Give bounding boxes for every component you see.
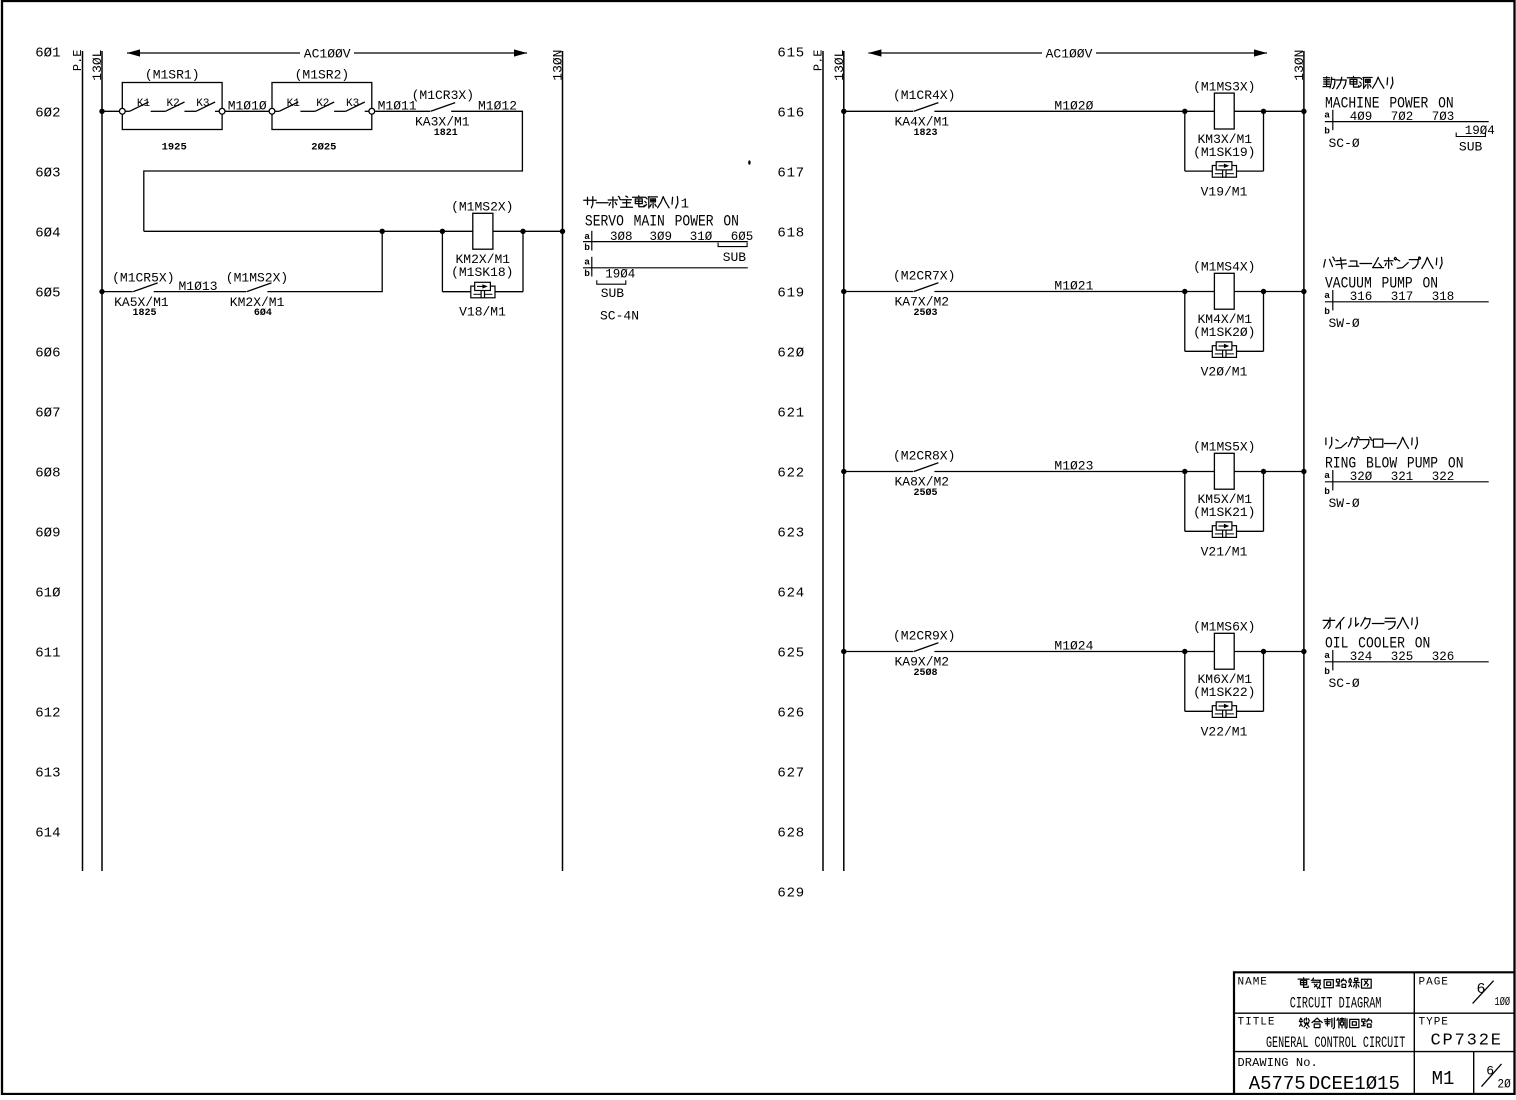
coil KM2X/M1 (M1MS2X): [451, 199, 513, 280]
svg-text:625: 625: [777, 645, 805, 661]
svg-text:19Ø4: 19Ø4: [605, 267, 635, 281]
svg-text:(M1MS5X): (M1MS5X): [1193, 440, 1255, 455]
svg-text:615: 615: [777, 45, 805, 61]
svg-text:M1Ø21: M1Ø21: [1054, 279, 1093, 294]
svg-text:SC-4N: SC-4N: [600, 308, 639, 323]
svg-text:M1Ø23: M1Ø23: [1054, 459, 1093, 474]
svg-text:K1: K1: [137, 98, 151, 110]
svg-text:b: b: [584, 242, 590, 253]
svg-text:6Ø6: 6Ø6: [35, 345, 60, 361]
svg-text:V21/M1: V21/M1: [1201, 545, 1248, 560]
title block DRAWING cell: [1238, 1056, 1400, 1095]
node on 130L rail rung M1Ø2Ø: [841, 109, 846, 114]
node junction suppressor right: [1261, 289, 1266, 294]
wire suppressor branch: [1185, 652, 1264, 712]
coil KM3X/M1 (M1MS3X): [1193, 79, 1255, 160]
svg-text:616: 616: [777, 105, 805, 121]
relay thermostat box (M1SR1) with contacts K1 K2 K3: [119, 68, 225, 154]
AC100V span arrow right: [868, 46, 1267, 61]
contact KA9X/M2 (M2CR9X): [893, 628, 955, 679]
svg-text:(M1SR1): (M1SR1): [145, 68, 200, 83]
contact KM2X/M1 aux (M1MS2X): [226, 270, 288, 319]
svg-text:626: 626: [777, 705, 805, 721]
svg-text:13ØL: 13ØL: [832, 50, 847, 81]
svg-text:611: 611: [35, 645, 60, 661]
svg-text:1925: 1925: [162, 142, 187, 154]
svg-text:a: a: [1324, 110, 1330, 121]
svg-text:(M1MS6X): (M1MS6X): [1193, 620, 1255, 635]
rail P.E left: [71, 50, 85, 872]
wire 605 to up-branch: [267, 231, 382, 291]
node junction V18 left: [440, 229, 445, 234]
svg-text:(M1SK18): (M1SK18): [451, 265, 513, 280]
AC100V span arrow left: [127, 46, 527, 61]
title block frame: [1234, 971, 1514, 1094]
suppressor V22/M1 body: [1201, 702, 1248, 740]
contact KA8X/M2 (M2CR8X): [893, 448, 955, 499]
rail P.E right: [812, 50, 826, 872]
svg-text:613: 613: [35, 765, 60, 781]
node junction suppressor left: [1182, 469, 1187, 474]
wire rail to M1SR1 box: [102, 110, 122, 112]
contact KA5X/M1 (M1CR5X): [112, 270, 174, 319]
svg-text:PAGE: PAGE: [1419, 977, 1449, 989]
svg-text:SC-Ø: SC-Ø: [1329, 136, 1360, 151]
svg-text:SC-Ø: SC-Ø: [1329, 676, 1360, 691]
relay thermostat box (M1SR2) with contacts K1 K2 K3: [269, 68, 375, 154]
svg-text:618: 618: [777, 225, 805, 241]
node junction suppressor right: [1261, 649, 1266, 654]
svg-text:6Ø5: 6Ø5: [35, 285, 60, 301]
svg-text:K3: K3: [346, 98, 359, 110]
node junction suppressor right: [1261, 109, 1266, 114]
svg-text:AC1ØØV: AC1ØØV: [304, 46, 351, 61]
node on 130N rail: [1301, 469, 1306, 474]
node junction suppressor right: [1261, 469, 1266, 474]
wire rung M1Ø2Ø left lead: [844, 110, 914, 112]
title block TITLE cell: [1238, 1017, 1406, 1052]
svg-text:25Ø8: 25Ø8: [913, 667, 937, 679]
node on 130L rail rung M1Ø21: [841, 289, 846, 294]
wire suppressor branch: [1185, 472, 1264, 532]
rail 130N right: [1292, 50, 1307, 872]
svg-text:1823: 1823: [913, 128, 937, 139]
suppressor V19/M1 body: [1201, 162, 1248, 200]
title block NAME cell: [1238, 977, 1382, 1013]
svg-text:6Ø1: 6Ø1: [35, 45, 60, 61]
svg-text:61Ø: 61Ø: [35, 585, 60, 601]
svg-text:627: 627: [777, 765, 805, 781]
svg-text:M1Ø24: M1Ø24: [1054, 639, 1093, 654]
svg-text:SERVO MAIN POWER ON: SERVO MAIN POWER ON: [585, 214, 739, 231]
wire rung to coil: [934, 110, 1304, 112]
svg-text:(M1CR4X): (M1CR4X): [893, 88, 955, 103]
contact KA4X/M1 (M1CR4X): [893, 88, 955, 139]
svg-text:1: 1: [681, 196, 689, 212]
svg-text:V22/M1: V22/M1: [1201, 725, 1248, 740]
svg-text:(M1CR5X): (M1CR5X): [112, 270, 174, 285]
svg-text:AC1ØØV: AC1ØØV: [1046, 46, 1093, 61]
contact KA7X/M2 (M2CR7X): [893, 268, 955, 319]
svg-text:TITLE: TITLE: [1238, 1017, 1276, 1029]
svg-text:SUB: SUB: [1459, 140, 1483, 155]
svg-text:622: 622: [777, 465, 805, 481]
svg-text:2Ø25: 2Ø25: [311, 142, 336, 154]
svg-text:A5775DCEE1Ø15: A5775DCEE1Ø15: [1249, 1073, 1400, 1095]
svg-text:(M1SK19): (M1SK19): [1193, 145, 1255, 160]
svg-text:(M1CR3X): (M1CR3X): [412, 88, 474, 103]
svg-text:6Ø4: 6Ø4: [254, 307, 272, 319]
svg-text:SW-Ø: SW-Ø: [1329, 496, 1360, 511]
node junction 605-branch: [380, 229, 385, 234]
wire box2 to contact KA3X: [375, 110, 430, 112]
svg-text:P.E: P.E: [812, 50, 826, 72]
svg-text:619: 619: [777, 285, 805, 301]
svg-text:(M1MS3X): (M1MS3X): [1193, 79, 1255, 94]
wire rung to coil: [934, 471, 1304, 473]
svg-text:K2: K2: [167, 98, 180, 110]
svg-text:6Ø9: 6Ø9: [35, 525, 60, 541]
svg-text:CIRCUIT DIAGRAM: CIRCUIT DIAGRAM: [1290, 994, 1382, 1012]
svg-text:M1: M1: [1432, 1068, 1455, 1090]
wire rung to coil: [934, 651, 1304, 653]
node on 130N rail: [1301, 649, 1306, 654]
svg-text:13ØL: 13ØL: [90, 50, 105, 81]
svg-text:a: a: [1324, 290, 1330, 301]
svg-text:V18/M1: V18/M1: [459, 304, 506, 319]
node on 130L rail rung 605: [99, 289, 104, 294]
suppressor V21/M1 body: [1201, 522, 1248, 560]
node on 130L rail rung M1Ø24: [841, 649, 846, 654]
svg-text:SUB: SUB: [601, 286, 625, 301]
coil KM5X/M1 (M1MS5X): [1193, 440, 1255, 521]
node on 130N rail: [1301, 289, 1306, 294]
wire suppressor branch: [1185, 292, 1264, 352]
node junction suppressor left: [1182, 289, 1187, 294]
row number labels right 615-629: [777, 45, 805, 901]
svg-text:614: 614: [35, 825, 60, 841]
node on 130N rail rung 604: [560, 229, 565, 234]
svg-text:a: a: [584, 257, 590, 268]
svg-text:a: a: [1324, 470, 1330, 481]
svg-text:NAME: NAME: [1238, 977, 1268, 989]
wire suppressor branch: [1185, 111, 1264, 171]
svg-text:VACUUM PUMP ON: VACUUM PUMP ON: [1325, 276, 1438, 293]
svg-text:SW-Ø: SW-Ø: [1329, 316, 1360, 331]
wire suppressor branch: [442, 231, 523, 291]
svg-text:629: 629: [777, 885, 805, 901]
svg-text:K1: K1: [287, 98, 301, 110]
suppressor V18/M1 body: [459, 282, 506, 319]
svg-text:6Ø4: 6Ø4: [35, 225, 60, 241]
annotation block MACHINE POWER ON: [1323, 76, 1495, 154]
svg-text:a: a: [1324, 650, 1330, 661]
annotation block RING BLOW PUMP ON: [1324, 437, 1488, 512]
svg-text:(M1MS2X): (M1MS2X): [451, 199, 513, 214]
svg-text:K2: K2: [316, 98, 329, 110]
svg-text:25Ø5: 25Ø5: [913, 487, 937, 499]
rail 130L right: [832, 50, 847, 872]
wire rung to coil: [934, 291, 1304, 293]
svg-text:617: 617: [777, 165, 805, 181]
svg-text:(M1MS2X): (M1MS2X): [226, 270, 288, 285]
contact KA3X/M1 (M1CR3X): [412, 88, 474, 139]
svg-text:621: 621: [777, 405, 805, 421]
svg-text:OIL COOLER ON: OIL COOLER ON: [1325, 636, 1430, 653]
rail 130L left: [90, 50, 105, 872]
svg-text:6Ø3: 6Ø3: [35, 165, 60, 181]
svg-text:6Ø8: 6Ø8: [35, 465, 60, 481]
svg-text:(M1MS4X): (M1MS4X): [1193, 260, 1255, 275]
title block TYPE cell: [1419, 1017, 1502, 1051]
coil KM4X/M1 (M1MS4X): [1193, 260, 1255, 341]
svg-text:6: 6: [1477, 981, 1486, 998]
svg-text:V19/M1: V19/M1: [1201, 185, 1248, 200]
svg-text:2Ø: 2Ø: [1497, 1078, 1511, 1092]
svg-text:6Ø2: 6Ø2: [35, 105, 60, 121]
svg-text:SUB: SUB: [723, 250, 747, 265]
wire between 605 contacts: [154, 291, 247, 293]
svg-text:624: 624: [777, 585, 805, 601]
svg-text:M1Ø2Ø: M1Ø2Ø: [1054, 98, 1093, 113]
svg-text:b: b: [584, 268, 590, 279]
wire rung M1Ø21 left lead: [844, 291, 914, 293]
wire contact to corner, down to row 603, left, down to row 604: [144, 111, 523, 231]
svg-text:1825: 1825: [132, 308, 156, 319]
coil KM6X/M1 (M1MS6X): [1193, 620, 1255, 701]
title block sheet cell M1 6/20: [1432, 1063, 1512, 1091]
svg-text:V2Ø/M1: V2Ø/M1: [1201, 365, 1248, 380]
svg-text:6Ø7: 6Ø7: [35, 405, 60, 421]
svg-text:1821: 1821: [434, 128, 458, 139]
svg-text:TYPE: TYPE: [1419, 1017, 1449, 1029]
svg-text:13ØN: 13ØN: [551, 50, 566, 81]
svg-text:13ØN: 13ØN: [1292, 50, 1307, 81]
svg-text:GENERAL CONTROL CIRCUIT: GENERAL CONTROL CIRCUIT: [1266, 1034, 1405, 1052]
svg-text:1ØØ: 1ØØ: [1495, 995, 1511, 1009]
svg-text:P.E: P.E: [71, 50, 85, 72]
rail 130N left: [551, 50, 566, 872]
svg-text:DRAWING No.: DRAWING No.: [1238, 1056, 1318, 1070]
svg-text:62Ø: 62Ø: [777, 345, 805, 361]
wire rung M1Ø23 left lead: [844, 471, 914, 473]
node on 130N rail: [1301, 109, 1306, 114]
node junction suppressor left: [1182, 109, 1187, 114]
svg-text:M1Ø13: M1Ø13: [179, 279, 218, 294]
suppressor V2Ø/M1 body: [1201, 342, 1248, 380]
node junction suppressor left: [1182, 649, 1187, 654]
node on 130L rail rung M1Ø23: [841, 469, 846, 474]
wire rung M1Ø24 left lead: [844, 651, 914, 653]
svg-text:(M1SK2Ø): (M1SK2Ø): [1193, 325, 1255, 340]
svg-text:(M2CR8X): (M2CR8X): [893, 448, 955, 463]
annotation servo main power block: [583, 196, 753, 324]
annotation block VACUUM PUMP ON: [1324, 257, 1489, 331]
svg-text:(M1SK21): (M1SK21): [1193, 505, 1255, 520]
svg-text:(M2CR9X): (M2CR9X): [893, 628, 955, 643]
node on 130L rail rung 602: [99, 109, 104, 114]
svg-text:a: a: [584, 231, 590, 242]
svg-text:628: 628: [777, 825, 805, 841]
svg-text:612: 612: [35, 705, 60, 721]
node junction V18 right: [520, 229, 525, 234]
svg-text:(M1SK22): (M1SK22): [1193, 685, 1255, 700]
annotation block OIL COOLER ON: [1323, 617, 1489, 691]
wire rung 604: [144, 230, 563, 232]
stray tick mark: [748, 160, 750, 164]
wire rung 605 left: [102, 291, 133, 293]
svg-text:25Ø3: 25Ø3: [913, 307, 937, 319]
row number labels left 601-614: [35, 45, 60, 841]
title block PAGE cell: [1419, 977, 1511, 1010]
svg-text:(M1SR2): (M1SR2): [295, 68, 350, 83]
svg-text:(M2CR7X): (M2CR7X): [893, 268, 955, 283]
wire M1010 between boxes: [225, 110, 269, 112]
svg-text:K3: K3: [196, 98, 209, 110]
svg-text:623: 623: [777, 525, 805, 541]
